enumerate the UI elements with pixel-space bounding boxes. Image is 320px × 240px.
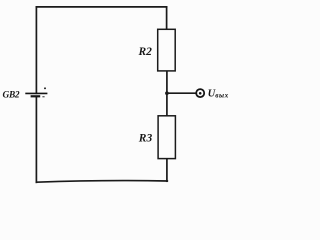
svg-text:R2: R2 <box>138 46 153 58</box>
svg-text:Uвых: Uвых <box>208 88 229 99</box>
svg-text:R3: R3 <box>138 132 153 144</box>
svg-text:GB2: GB2 <box>3 91 20 101</box>
